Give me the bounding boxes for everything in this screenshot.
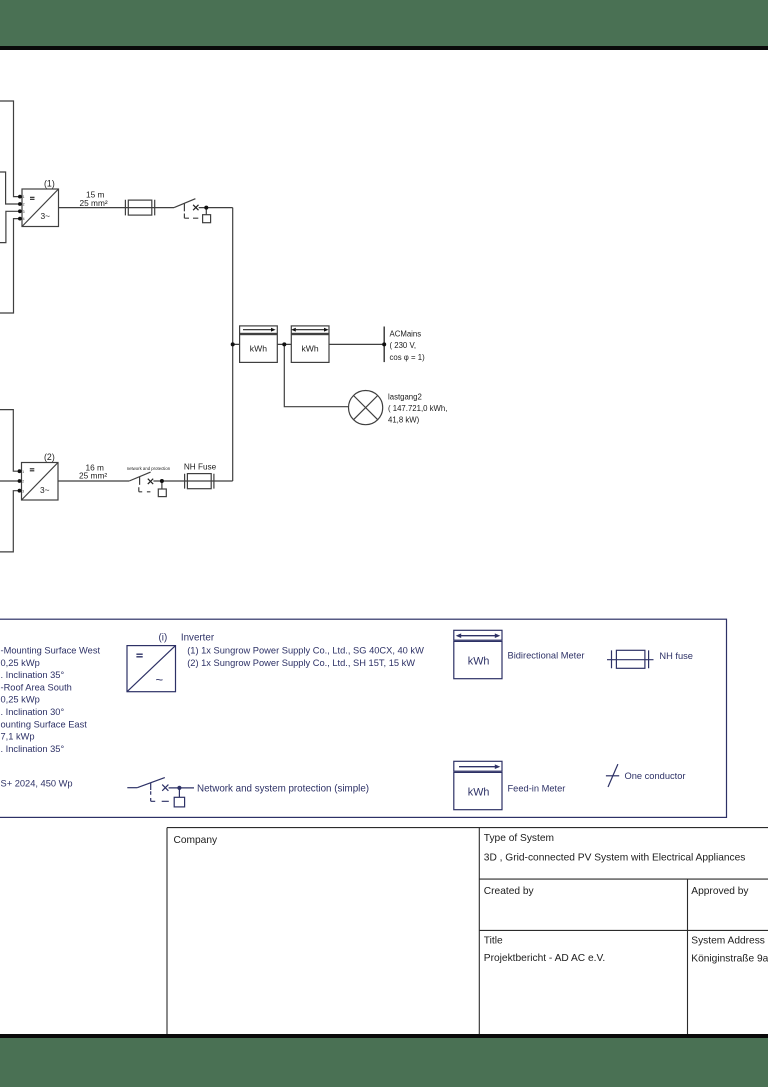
- svg-text:0,25 kWp: 0,25 kWp: [1, 658, 40, 668]
- svg-text:Network and system protection: Network and system protection (simple): [197, 783, 369, 794]
- svg-text:One conductor: One conductor: [625, 771, 686, 781]
- svg-text:2: 2: [22, 480, 24, 484]
- svg-text:(2): (2): [44, 452, 55, 462]
- svg-text:System Address: System Address: [691, 936, 765, 947]
- svg-text:ACMains: ACMains: [390, 330, 422, 339]
- svg-text:3~: 3~: [41, 211, 51, 221]
- svg-text:kWh: kWh: [250, 343, 267, 353]
- svg-text:ounting Surface East: ounting Surface East: [1, 719, 88, 729]
- svg-text:NH Fuse: NH Fuse: [184, 463, 217, 472]
- svg-text:~: ~: [156, 672, 164, 687]
- svg-text:kWh: kWh: [468, 786, 490, 798]
- svg-text:25 mm²: 25 mm²: [79, 470, 107, 480]
- svg-text:(2) 1x Sungrow Power Supply Co: (2) 1x Sungrow Power Supply Co., Ltd., S…: [187, 658, 415, 668]
- svg-text:1: 1: [23, 195, 25, 199]
- svg-text:3D , Grid-connected PV System: 3D , Grid-connected PV System with Elect…: [484, 853, 746, 864]
- svg-text:Inverter: Inverter: [181, 632, 215, 643]
- svg-text:kWh: kWh: [302, 343, 319, 353]
- svg-text:S+ 2024, 450 Wp: S+ 2024, 450 Wp: [1, 779, 73, 789]
- svg-text:41,8 kW): 41,8 kW): [388, 416, 420, 425]
- svg-text:-Roof Area South: -Roof Area South: [1, 682, 72, 692]
- svg-text:kWh: kWh: [468, 655, 490, 667]
- svg-text:3~: 3~: [40, 485, 50, 495]
- svg-text:(1) 1x Sungrow Power Supply Co: (1) 1x Sungrow Power Supply Co., Ltd., S…: [187, 645, 424, 655]
- svg-text:Type of System: Type of System: [484, 833, 554, 844]
- svg-text:-Mounting Surface West: -Mounting Surface West: [1, 646, 101, 656]
- svg-text:3: 3: [23, 210, 25, 214]
- svg-text:7,1 kWp: 7,1 kWp: [1, 732, 35, 742]
- svg-text:2: 2: [23, 203, 25, 207]
- svg-text:1: 1: [22, 470, 24, 474]
- svg-text:25 mm²: 25 mm²: [80, 198, 108, 208]
- svg-text:network and protection: network and protection: [127, 466, 171, 471]
- svg-text:4: 4: [23, 217, 25, 221]
- svg-text:Bidirectional Meter: Bidirectional Meter: [508, 651, 585, 661]
- svg-text:Feed-in Meter: Feed-in Meter: [508, 784, 566, 794]
- svg-text:NH fuse: NH fuse: [659, 651, 693, 661]
- svg-text:. Inclination 35°: . Inclination 35°: [1, 670, 65, 680]
- svg-text:0,25 kWp: 0,25 kWp: [1, 695, 40, 705]
- svg-text:( 230 V,: ( 230 V,: [390, 341, 417, 350]
- svg-text:lastgang2: lastgang2: [388, 392, 422, 401]
- svg-text:. Inclination 35°: . Inclination 35°: [1, 744, 65, 754]
- svg-text:Title: Title: [484, 936, 503, 947]
- svg-text:(i): (i): [159, 632, 168, 643]
- svg-text:Königinstraße 9a,: Königinstraße 9a,: [691, 954, 768, 965]
- svg-text:. Inclination 30°: . Inclination 30°: [1, 707, 65, 717]
- svg-text:3: 3: [22, 489, 24, 493]
- svg-text:Created by: Created by: [484, 886, 535, 897]
- svg-text:Approved by: Approved by: [691, 886, 749, 897]
- svg-text:( 147.721,0 kWh,: ( 147.721,0 kWh,: [388, 404, 447, 413]
- svg-text:cos φ = 1): cos φ = 1): [390, 353, 426, 362]
- svg-text:(1): (1): [44, 179, 55, 189]
- svg-text:Company: Company: [174, 835, 219, 846]
- svg-text:Projektbericht - AD AC e.V.: Projektbericht - AD AC e.V.: [484, 953, 605, 964]
